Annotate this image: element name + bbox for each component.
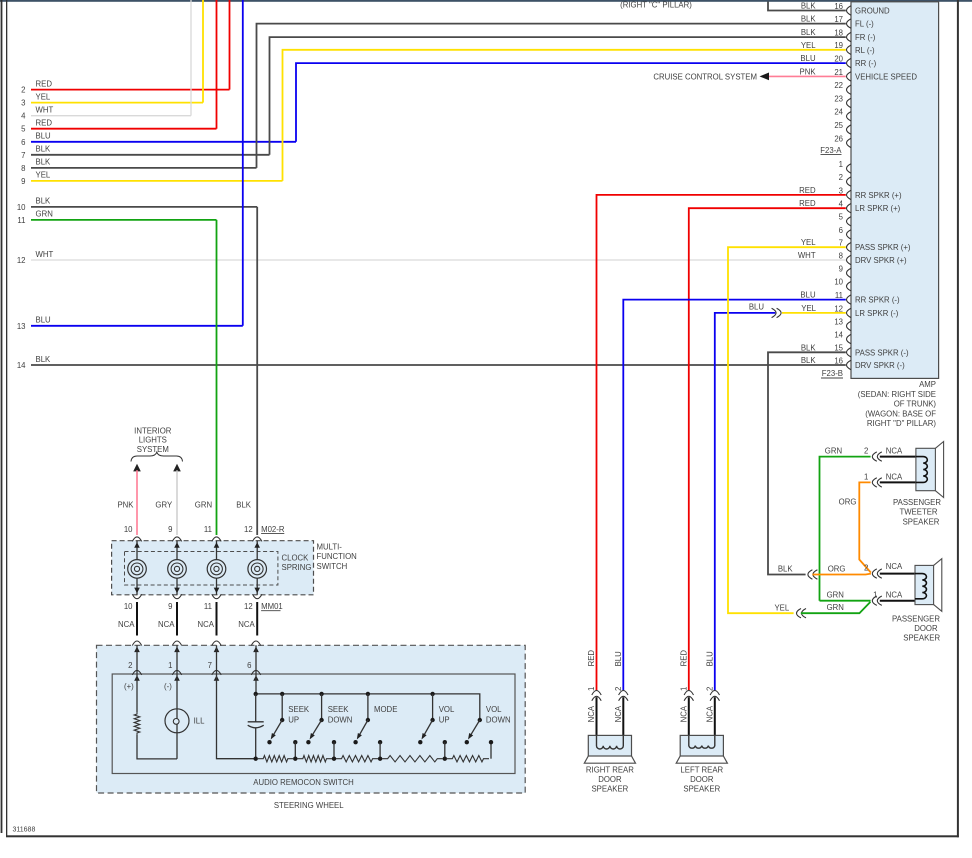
amplifier box bbox=[851, 2, 939, 379]
svg-text:PASSENGER: PASSENGER bbox=[892, 614, 940, 623]
page right border bbox=[957, 0, 959, 837]
switch SEEK UP bbox=[280, 692, 284, 696]
amp pin 10 F23-B bbox=[847, 282, 852, 291]
svg-text:9: 9 bbox=[168, 602, 172, 611]
svg-text:VOL: VOL bbox=[486, 705, 502, 714]
svg-text:3: 3 bbox=[21, 99, 25, 108]
svg-text:21: 21 bbox=[834, 68, 843, 77]
door pin 1 NCA wire bbox=[880, 600, 915, 602]
svg-text:BLK: BLK bbox=[236, 501, 252, 510]
svg-text:4: 4 bbox=[839, 200, 844, 209]
clock spring coil 9 bbox=[176, 541, 178, 560]
bottom rail end elbow bbox=[490, 742, 492, 759]
svg-text:BLK: BLK bbox=[36, 355, 52, 364]
svg-text:SEEK: SEEK bbox=[288, 705, 310, 714]
svg-text:BLU: BLU bbox=[36, 132, 52, 141]
svg-text:PNK: PNK bbox=[800, 68, 817, 77]
svg-text:WHT: WHT bbox=[798, 251, 816, 260]
svg-text:SYSTEM: SYSTEM bbox=[137, 445, 169, 454]
wire 11 GRN drop to clock-spring pin 11 bbox=[216, 220, 218, 535]
amp pin 5 F23-B bbox=[847, 217, 852, 226]
clock spring bottom pin 11 bbox=[212, 594, 221, 599]
interior lights brace bbox=[131, 452, 183, 461]
left rear speaker pin 1 NCA wire bbox=[688, 697, 690, 735]
amp pin 23 F23-A bbox=[847, 98, 852, 107]
interior lights arrow GRY bbox=[173, 464, 181, 472]
svg-text:LR SPKR (+): LR SPKR (+) bbox=[855, 204, 901, 213]
svg-text:FL (-): FL (-) bbox=[855, 20, 874, 29]
amp pin 2 F23-B bbox=[847, 177, 852, 186]
svg-text:PASSENGER: PASSENGER bbox=[893, 498, 941, 507]
svg-text:13: 13 bbox=[834, 317, 843, 326]
inline connector BLK-ORG bbox=[808, 570, 813, 579]
svg-text:11: 11 bbox=[204, 602, 212, 611]
steering wheel box bbox=[97, 645, 526, 793]
svg-text:BLK: BLK bbox=[801, 28, 817, 37]
svg-text:BLU: BLU bbox=[705, 651, 714, 667]
svg-text:MULTI-: MULTI- bbox=[317, 542, 343, 551]
amp pin 1 F23-B bbox=[847, 164, 852, 173]
lamp ILL bbox=[165, 709, 189, 733]
svg-text:2: 2 bbox=[864, 563, 868, 572]
svg-text:ORG: ORG bbox=[828, 564, 846, 573]
svg-text:RED: RED bbox=[36, 79, 53, 88]
svg-text:GRY: GRY bbox=[155, 501, 173, 510]
svg-text:YEL: YEL bbox=[774, 603, 789, 612]
svg-text:YEL: YEL bbox=[801, 238, 816, 247]
svg-text:9: 9 bbox=[168, 525, 172, 534]
switch VOL UP bbox=[430, 692, 434, 696]
svg-text:10: 10 bbox=[834, 278, 843, 287]
resistor R1 bbox=[258, 756, 294, 762]
svg-text:INTERIOR: INTERIOR bbox=[134, 426, 172, 435]
resistor R2 bbox=[297, 756, 332, 762]
svg-text:MODE: MODE bbox=[374, 705, 397, 714]
amp pin 22 F23-A bbox=[847, 85, 852, 94]
amp pin 12 F23-B bbox=[847, 308, 852, 317]
wire 10 BLK horizontal bbox=[31, 206, 257, 208]
inline connector YEL-GRN bbox=[797, 609, 802, 618]
svg-text:16: 16 bbox=[834, 356, 843, 365]
left rear speaker pin 1 connector bbox=[684, 691, 693, 696]
svg-text:14: 14 bbox=[834, 331, 843, 340]
svg-text:NCA: NCA bbox=[886, 447, 903, 456]
svg-text:BLU: BLU bbox=[800, 291, 816, 300]
amp pin 13 F23-B bbox=[847, 321, 852, 330]
wire ORG tweeter pin 1 bbox=[859, 482, 871, 572]
cruise control arrow bbox=[760, 73, 770, 81]
resistor bottom wire bbox=[137, 735, 177, 759]
right rear speaker pin 1 connector bbox=[592, 691, 601, 696]
pin 6 wire to top rail bbox=[255, 674, 257, 694]
amp pin 24 F23-A bbox=[847, 112, 852, 121]
wire 14 BLK horizontal bbox=[31, 364, 846, 366]
resistor ILL bbox=[134, 712, 140, 735]
svg-text:(RIGHT "C" PILLAR): (RIGHT "C" PILLAR) bbox=[620, 1, 692, 10]
switch MODE bbox=[366, 692, 370, 696]
passenger door speaker symbol bbox=[915, 565, 934, 604]
svg-text:1: 1 bbox=[168, 661, 172, 670]
ground wire from right C pillar to amp pin 16 bbox=[768, 2, 846, 11]
svg-text:10: 10 bbox=[124, 525, 133, 534]
svg-text:BLK: BLK bbox=[801, 15, 817, 24]
svg-text:AUDIO REMOCON SWITCH: AUDIO REMOCON SWITCH bbox=[253, 778, 354, 787]
right rear speaker pin 2 NCA wire bbox=[622, 697, 624, 735]
svg-text:BLK: BLK bbox=[801, 343, 817, 352]
wire YEL splice to amp pin 12 bbox=[782, 312, 846, 314]
amp pin 14 F23-B bbox=[847, 334, 852, 343]
svg-text:BLK: BLK bbox=[778, 564, 794, 573]
wire 4 WHT horizontal bbox=[31, 115, 191, 117]
svg-text:GRN: GRN bbox=[195, 501, 212, 510]
multi-function switch box bbox=[112, 541, 314, 595]
wire YEL pass spkr riser from amp pin 7 bbox=[728, 247, 846, 613]
door pin 2 NCA wire bbox=[880, 573, 915, 575]
svg-text:RED: RED bbox=[799, 199, 816, 208]
page left inner border bbox=[6, 0, 7, 836]
svg-text:25: 25 bbox=[834, 121, 843, 130]
svg-text:LEFT REAR: LEFT REAR bbox=[680, 766, 723, 775]
svg-text:6: 6 bbox=[839, 226, 843, 235]
svg-text:PNK: PNK bbox=[117, 501, 134, 510]
amp pin 26 F23-A bbox=[847, 138, 852, 147]
wire PNK to clock-spring pin 10 bbox=[136, 470, 138, 535]
passenger tweeter speaker symbol bbox=[916, 448, 936, 490]
svg-text:NCA: NCA bbox=[705, 705, 714, 722]
svg-text:NCA: NCA bbox=[198, 620, 215, 629]
svg-text:DOOR: DOOR bbox=[690, 775, 714, 784]
resistor R5 bbox=[447, 756, 489, 762]
wire 7 BLK horizontal bbox=[31, 154, 270, 156]
left rear door speaker symbol bbox=[680, 735, 723, 756]
svg-text:24: 24 bbox=[834, 108, 843, 117]
wire 9 YEL riser and run to amp pin 19 bbox=[283, 50, 846, 181]
svg-text:BLK: BLK bbox=[801, 2, 817, 11]
svg-text:BLU: BLU bbox=[614, 651, 623, 667]
svg-text:GRN: GRN bbox=[825, 447, 842, 456]
svg-text:9: 9 bbox=[21, 177, 25, 186]
svg-text:22: 22 bbox=[834, 81, 843, 90]
svg-text:PASS SPKR (+): PASS SPKR (+) bbox=[855, 243, 911, 252]
left rear speaker pin 2 NCA wire bbox=[714, 697, 716, 735]
svg-text:DOOR: DOOR bbox=[914, 624, 938, 633]
door pin 2 connector bbox=[872, 569, 877, 578]
amp pin 3 F23-B bbox=[847, 190, 852, 199]
svg-text:12: 12 bbox=[17, 256, 26, 265]
NCA wire pin 9 bbox=[176, 602, 178, 636]
svg-text:RR SPKR (-): RR SPKR (-) bbox=[855, 296, 900, 305]
wire BLK pass spkr from amp pin 15 bbox=[768, 352, 846, 574]
clock spring coil 11 bbox=[216, 541, 218, 560]
svg-text:AMP: AMP bbox=[919, 380, 936, 389]
svg-text:2: 2 bbox=[705, 687, 714, 691]
steering wheel pin 6 entry bbox=[251, 641, 260, 646]
wire 4 WHT vertical to top bbox=[190, 0, 192, 116]
wire 8 BLK riser and run to amp pin 17 bbox=[257, 24, 846, 168]
switch SEEK DOWN bbox=[319, 692, 323, 696]
svg-text:NCA: NCA bbox=[614, 705, 623, 722]
svg-text:2: 2 bbox=[864, 447, 868, 456]
svg-text:LIGHTS: LIGHTS bbox=[139, 436, 167, 445]
svg-text:BLU: BLU bbox=[749, 302, 765, 311]
svg-text:(-): (-) bbox=[164, 682, 172, 691]
svg-text:RIGHT "D" PILLAR): RIGHT "D" PILLAR) bbox=[867, 419, 936, 428]
svg-text:BLK: BLK bbox=[36, 145, 52, 154]
amp pin 20 F23-A bbox=[847, 58, 852, 67]
svg-text:GROUND: GROUND bbox=[855, 7, 890, 16]
svg-text:12: 12 bbox=[244, 602, 253, 611]
tweeter pin 2 connector bbox=[872, 452, 877, 461]
wire BLU left-rear riser bbox=[715, 313, 776, 690]
svg-text:8: 8 bbox=[21, 164, 25, 173]
amp pin 21 F23-A bbox=[847, 72, 852, 81]
svg-text:DRV SPKR (+): DRV SPKR (+) bbox=[855, 256, 907, 265]
clock spring coil 12 bbox=[256, 541, 258, 560]
svg-text:(WAGON: BASE OF: (WAGON: BASE OF bbox=[865, 409, 936, 418]
svg-text:SPEAKER: SPEAKER bbox=[591, 785, 628, 794]
junction cap bottom bbox=[254, 757, 258, 761]
amp pin 4 F23-B bbox=[847, 204, 852, 213]
NCA wire pin 11 bbox=[216, 602, 218, 636]
pin 1 wire to lamp bbox=[176, 674, 178, 719]
svg-text:SPEAKER: SPEAKER bbox=[903, 517, 940, 526]
svg-text:5: 5 bbox=[21, 125, 26, 134]
svg-text:11: 11 bbox=[17, 216, 25, 225]
wire PNK to amp pin 21 bbox=[769, 75, 846, 77]
svg-text:7: 7 bbox=[839, 239, 843, 248]
svg-text:16: 16 bbox=[834, 2, 843, 11]
wire 8 BLK horizontal bbox=[31, 167, 257, 169]
wire 10 BLK drop to clock-spring pin 12 bbox=[256, 207, 258, 535]
resistor R4 bbox=[382, 756, 443, 762]
svg-text:11: 11 bbox=[835, 291, 843, 300]
svg-text:F23-A: F23-A bbox=[820, 146, 842, 155]
svg-text:NCA: NCA bbox=[886, 472, 903, 481]
page top border bbox=[0, 0, 972, 2]
svg-text:1: 1 bbox=[587, 687, 596, 691]
tweeter pin 1 connector bbox=[872, 478, 877, 487]
svg-text:7: 7 bbox=[208, 661, 212, 670]
svg-text:ILL: ILL bbox=[194, 717, 206, 726]
wire 11 GRN horizontal bbox=[31, 219, 217, 221]
amp pin 16 F23-A bbox=[847, 6, 852, 15]
steering wheel pin 1 entry bbox=[172, 641, 181, 646]
svg-text:SWITCH: SWITCH bbox=[317, 562, 348, 571]
svg-text:NCA: NCA bbox=[238, 620, 255, 629]
svg-text:12: 12 bbox=[244, 525, 253, 534]
amp pin 18 F23-A bbox=[847, 32, 852, 41]
clock spring coil 10 bbox=[136, 541, 138, 560]
svg-text:BLK: BLK bbox=[36, 197, 52, 206]
svg-text:MM01: MM01 bbox=[261, 602, 283, 611]
inline connector BLU-YEL bbox=[772, 308, 777, 317]
svg-text:RED: RED bbox=[36, 119, 53, 128]
clock spring bottom pin 12 bbox=[253, 594, 262, 599]
svg-text:FUNCTION: FUNCTION bbox=[317, 552, 357, 561]
svg-text:23: 23 bbox=[834, 94, 843, 103]
clock spring bottom pin 9 bbox=[172, 594, 181, 599]
svg-text:26: 26 bbox=[834, 134, 843, 143]
tweeter pin 2 NCA wire bbox=[880, 456, 916, 458]
left rear speaker pin 2 connector bbox=[710, 691, 719, 696]
svg-text:(SEDAN: RIGHT SIDE: (SEDAN: RIGHT SIDE bbox=[858, 390, 936, 399]
svg-text:SEEK: SEEK bbox=[328, 705, 350, 714]
amp pin 16 F23-B bbox=[847, 360, 852, 369]
svg-text:4: 4 bbox=[21, 112, 26, 121]
svg-text:YEL: YEL bbox=[36, 171, 51, 180]
wire GRN tweeter pin 2 bbox=[820, 457, 871, 601]
NCA wire pin 12 bbox=[256, 602, 258, 636]
svg-text:BLU: BLU bbox=[36, 316, 52, 325]
svg-text:NCA: NCA bbox=[886, 590, 903, 599]
svg-text:NCA: NCA bbox=[118, 620, 135, 629]
wire 3 YEL vertical to top bbox=[202, 0, 204, 103]
interior lights arrow PNK bbox=[133, 464, 141, 472]
svg-text:SPRING: SPRING bbox=[282, 563, 312, 572]
svg-text:2: 2 bbox=[128, 661, 132, 670]
svg-text:DOWN: DOWN bbox=[328, 716, 353, 725]
svg-text:13: 13 bbox=[17, 322, 26, 331]
svg-text:1: 1 bbox=[679, 687, 688, 691]
svg-text:BLK: BLK bbox=[36, 158, 52, 167]
svg-text:6: 6 bbox=[247, 661, 251, 670]
svg-text:14: 14 bbox=[17, 361, 26, 370]
svg-text:VEHICLE SPEED: VEHICLE SPEED bbox=[855, 72, 917, 81]
svg-text:12: 12 bbox=[834, 304, 843, 313]
svg-text:UP: UP bbox=[288, 716, 299, 725]
top rail bbox=[256, 694, 480, 720]
right rear door speaker symbol bbox=[588, 735, 631, 756]
wire 5 RED horizontal bbox=[31, 128, 217, 130]
svg-text:NCA: NCA bbox=[158, 620, 175, 629]
wire ORG splice to door pin 2 bbox=[812, 573, 871, 576]
svg-text:1: 1 bbox=[839, 160, 843, 169]
resistor R3 bbox=[336, 756, 378, 762]
amp pin 7 F23-B bbox=[847, 243, 852, 252]
svg-text:RED: RED bbox=[679, 650, 688, 667]
svg-text:M02-R: M02-R bbox=[261, 525, 285, 534]
svg-text:RED: RED bbox=[587, 650, 596, 667]
page bottom border bbox=[6, 835, 959, 837]
wire 6 BLU horizontal bbox=[31, 141, 296, 143]
svg-text:10: 10 bbox=[124, 602, 133, 611]
svg-text:20: 20 bbox=[834, 55, 843, 64]
svg-text:17: 17 bbox=[834, 15, 843, 24]
wire 3 YEL horizontal bbox=[31, 102, 203, 104]
capacitor bbox=[255, 694, 257, 722]
pin 7 wire to bottom rail bbox=[217, 674, 256, 759]
amp pin 11 F23-B bbox=[847, 295, 852, 304]
wire 13 BLU horizontal bbox=[31, 325, 243, 327]
amp pin 15 F23-B bbox=[847, 348, 852, 357]
svg-text:WHT: WHT bbox=[36, 106, 54, 115]
svg-text:YEL: YEL bbox=[36, 92, 51, 101]
svg-text:FR (-): FR (-) bbox=[855, 33, 876, 42]
wire 5 RED vertical to top bbox=[216, 0, 218, 129]
svg-text:18: 18 bbox=[834, 29, 843, 38]
svg-text:YEL: YEL bbox=[801, 304, 816, 313]
NCA wire pin 10 bbox=[136, 602, 138, 636]
svg-text:6: 6 bbox=[21, 138, 25, 147]
wire RED left-rear to amp pin 4 bbox=[689, 208, 846, 690]
svg-text:RED: RED bbox=[799, 186, 816, 195]
wire RED right-rear to amp pin 3 bbox=[597, 195, 846, 690]
steering wheel pin 7 entry bbox=[212, 641, 221, 646]
svg-text:2: 2 bbox=[839, 173, 843, 182]
svg-text:7: 7 bbox=[21, 151, 25, 160]
svg-text:GRN: GRN bbox=[827, 590, 844, 599]
svg-text:8: 8 bbox=[839, 251, 843, 260]
wire GRY to clock-spring pin 9 bbox=[176, 470, 178, 535]
svg-text:10: 10 bbox=[17, 203, 26, 212]
svg-text:BLK: BLK bbox=[801, 356, 817, 365]
svg-text:GRN: GRN bbox=[827, 603, 844, 612]
svg-text:DOWN: DOWN bbox=[486, 716, 511, 725]
svg-text:(+): (+) bbox=[124, 682, 134, 691]
svg-text:NCA: NCA bbox=[886, 562, 903, 571]
svg-text:1: 1 bbox=[864, 472, 868, 481]
amp pin 25 F23-A bbox=[847, 125, 852, 134]
steering wheel pin 2 entry bbox=[132, 641, 141, 646]
amp pin 17 F23-A bbox=[847, 19, 852, 28]
svg-text:RL (-): RL (-) bbox=[855, 46, 875, 55]
wire 6 BLU riser and run to amp pin 20 bbox=[296, 63, 846, 142]
svg-text:SPEAKER: SPEAKER bbox=[683, 785, 720, 794]
svg-text:BLU: BLU bbox=[800, 54, 816, 63]
svg-text:VOL: VOL bbox=[439, 705, 455, 714]
svg-text:3: 3 bbox=[839, 186, 843, 195]
tweeter pin 1 NCA wire bbox=[880, 481, 916, 483]
svg-text:LR SPKR (-): LR SPKR (-) bbox=[855, 309, 899, 318]
svg-text:GRN: GRN bbox=[36, 210, 53, 219]
page left outer border bbox=[1, 0, 3, 833]
svg-text:F23-B: F23-B bbox=[822, 369, 843, 378]
amp pin 8 F23-B bbox=[847, 255, 852, 264]
wire GRN vertical into door pin 1 bbox=[820, 600, 871, 602]
svg-text:NCA: NCA bbox=[587, 705, 596, 722]
svg-text:9: 9 bbox=[839, 264, 843, 273]
wire 2 RED horizontal bbox=[31, 89, 230, 91]
pin 2 wire to resistor bbox=[136, 674, 138, 712]
svg-text:ORG: ORG bbox=[839, 497, 857, 506]
svg-text:RR (-): RR (-) bbox=[855, 59, 877, 68]
clock spring bottom pin 10 bbox=[132, 594, 141, 599]
switch VOL DOWN bbox=[478, 718, 482, 722]
junction pin6 top rail bbox=[254, 692, 258, 696]
svg-text:OF TRUNK): OF TRUNK) bbox=[894, 400, 937, 409]
svg-text:RIGHT REAR: RIGHT REAR bbox=[586, 766, 634, 775]
wire BLU right-rear to amp pin 11 bbox=[623, 300, 846, 691]
wire 12 WHT horizontal bbox=[31, 259, 846, 261]
svg-text:2: 2 bbox=[614, 687, 623, 691]
door pin 1 connector bbox=[872, 596, 877, 605]
svg-text:NCA: NCA bbox=[679, 705, 688, 722]
wire 7 BLK riser and run to amp pin 18 bbox=[270, 37, 846, 155]
wire 2 RED vertical to top bbox=[229, 0, 231, 90]
svg-text:STEERING WHEEL: STEERING WHEEL bbox=[274, 801, 344, 810]
amp pin 9 F23-B bbox=[847, 268, 852, 277]
svg-text:TWEETER: TWEETER bbox=[899, 508, 937, 517]
svg-text:5: 5 bbox=[839, 213, 844, 222]
amp pin 6 F23-B bbox=[847, 230, 852, 239]
wire 9 YEL horizontal bbox=[31, 180, 283, 182]
wire GRN splice to door pin 1 bbox=[801, 602, 871, 613]
svg-text:15: 15 bbox=[834, 344, 843, 353]
right rear speaker pin 2 connector bbox=[619, 691, 628, 696]
svg-text:PASS SPKR (-): PASS SPKR (-) bbox=[855, 348, 909, 357]
clock spring box bbox=[125, 552, 278, 586]
svg-text:2: 2 bbox=[21, 86, 25, 95]
